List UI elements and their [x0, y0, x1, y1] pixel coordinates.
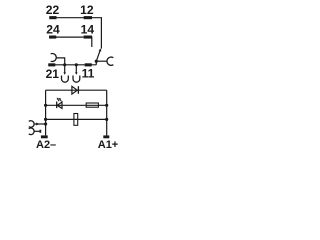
pin fork 1 tip: [63, 72, 66, 74]
wire 24-14 to NO contact: [49, 37, 92, 47]
pin fork 2 tip: [75, 72, 78, 74]
terminal 21 square: [48, 63, 55, 66]
wire 22-12 to NC contact: [49, 18, 101, 49]
svg-text:24: 24: [46, 23, 60, 37]
terminal 12 square: [84, 16, 92, 19]
svg-text:A2–: A2–: [36, 139, 56, 150]
resistor R1: [86, 103, 98, 107]
socket cup 2: [73, 76, 80, 83]
blade arrowhead: [99, 49, 102, 52]
wire 21-11: [48, 64, 96, 66]
plug arc 21: [51, 54, 57, 62]
terminal 14 square: [84, 36, 92, 39]
wire LED branch: [46, 104, 107, 106]
wire common step down: [95, 61, 97, 65]
socket arc right: [107, 57, 113, 65]
plug arc A2 upper: [29, 121, 34, 128]
pin fork 2: [75, 65, 77, 74]
plug arc A2 lower: [29, 128, 34, 135]
relay coil K1: [74, 114, 78, 126]
arrow tick on A2 plug stub: [36, 123, 39, 126]
diode V1 cathode bar: [77, 86, 79, 94]
svg-text:12: 12: [80, 3, 94, 17]
LED triangle: [57, 102, 62, 108]
svg-text:22: 22: [46, 3, 60, 17]
node right LED junction: [105, 104, 108, 107]
svg-text:21: 21: [46, 67, 60, 81]
terminal 24 square: [49, 36, 56, 39]
coil box right wire: [106, 90, 108, 135]
terminal A2 square: [41, 135, 48, 138]
pin fork 1: [64, 65, 66, 74]
terminal 11 square: [85, 63, 92, 66]
socket cup 1: [62, 76, 69, 83]
LED arrow 1: [58, 99, 60, 101]
node left coil junction: [44, 118, 47, 121]
wire common to socket: [96, 60, 107, 62]
node right coil junction: [105, 118, 108, 121]
svg-text:14: 14: [81, 23, 95, 37]
terminal 22 square: [49, 16, 56, 19]
relay contact blade: [96, 51, 100, 61]
LED cathode bar: [56, 102, 58, 109]
wire A2 plug: [34, 123, 46, 125]
LED arrow 2: [60, 99, 62, 101]
tick A2 lower stub end: [40, 130, 42, 133]
terminal A1 square: [103, 135, 109, 138]
node A2 plug junction: [44, 122, 47, 125]
svg-text:A1+: A1+: [98, 139, 119, 150]
svg-text:11: 11: [82, 67, 95, 81]
node common junction: [95, 60, 98, 63]
node fork 2 junction: [75, 63, 78, 66]
wire plug 21 to line: [56, 58, 64, 65]
diode V1 triangle: [72, 86, 77, 94]
node left LED junction: [44, 104, 47, 107]
node fork 1 junction: [63, 63, 66, 66]
coil box left wire: [45, 90, 47, 135]
wire coil branch: [46, 118, 107, 120]
wire top branch: [46, 89, 107, 91]
wire A2 lower stub: [34, 130, 40, 132]
